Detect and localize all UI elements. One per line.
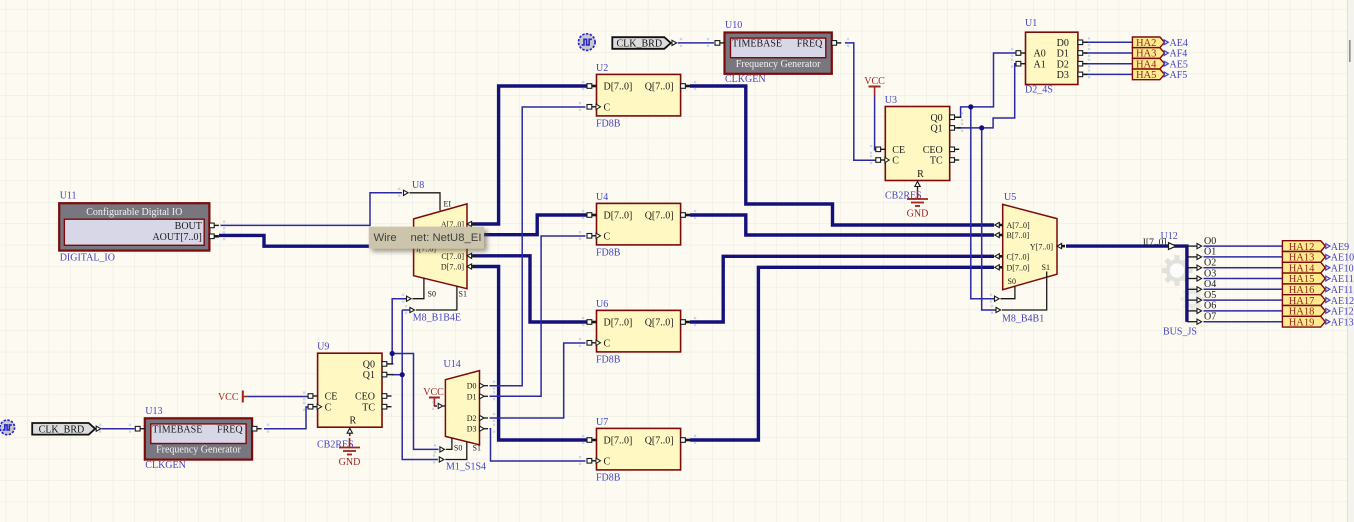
svg-text:D[7..0]: D[7..0] xyxy=(604,318,633,329)
wire net U9.Q1 to U8.S1 and U14.S1 xyxy=(392,310,438,460)
svg-text:CE: CE xyxy=(892,145,905,156)
svg-text:HA19: HA19 xyxy=(1289,317,1315,328)
svg-text:O3: O3 xyxy=(1204,268,1216,279)
svg-text:AE10: AE10 xyxy=(1331,253,1354,264)
svg-text:D2: D2 xyxy=(467,414,477,423)
svg-text:FD8B: FD8B xyxy=(596,473,621,484)
svg-text:A0: A0 xyxy=(1034,49,1046,60)
svg-text:D[7..0]: D[7..0] xyxy=(604,211,633,222)
svg-text:U2: U2 xyxy=(596,63,608,74)
svg-text:TC: TC xyxy=(930,156,943,167)
ground GND under U3 xyxy=(907,190,929,220)
svg-text:VCC: VCC xyxy=(864,76,885,87)
bus net AOUT[7..0]: U11.AOUT to U8 input xyxy=(219,235,414,246)
bus net from U2.Q to U5.A xyxy=(690,86,994,225)
scrollbar right edge xyxy=(1348,0,1354,522)
demultiplexer U14 (M1_S1S4) xyxy=(438,359,488,473)
svg-text:U6: U6 xyxy=(596,299,608,310)
configurable digital IO U11 (DIGITAL_IO) xyxy=(59,191,219,264)
register U4 (FD8B) xyxy=(587,192,690,259)
register U2 (FD8B) xyxy=(587,63,690,130)
svg-text:D[7..0]: D[7..0] xyxy=(604,436,633,447)
junction at U3.Q0 branch xyxy=(968,104,973,109)
svg-text:BUS_JS: BUS_JS xyxy=(1163,327,1197,338)
svg-text:O6: O6 xyxy=(1204,301,1216,312)
svg-text:O0: O0 xyxy=(1204,236,1216,247)
svg-text:U10: U10 xyxy=(725,20,742,31)
wire net U9.Q0 to U8.S0 and U14.S0 xyxy=(392,299,438,450)
svg-text:U13: U13 xyxy=(145,406,162,417)
svg-text:TIMEBASE: TIMEBASE xyxy=(152,424,202,435)
counter U9 (CB2RES) xyxy=(308,342,393,437)
bus net from U4.Q to U5.B xyxy=(690,215,994,235)
power VCC above U3 xyxy=(864,76,885,97)
register U7 (FD8B) xyxy=(587,417,690,484)
svg-text:AF13: AF13 xyxy=(1331,317,1354,328)
bus net from U8.B to U4.D xyxy=(473,215,588,235)
svg-text:S0: S0 xyxy=(1008,277,1016,286)
frequency generator U10 (CLKGEN) xyxy=(715,20,841,85)
port HA14 / net label AF10 xyxy=(1282,262,1353,274)
svg-text:Q0: Q0 xyxy=(363,360,375,371)
svg-text:CE: CE xyxy=(325,392,338,403)
svg-text:S1: S1 xyxy=(473,443,481,452)
svg-text:D3: D3 xyxy=(1057,70,1069,81)
svg-text:U8: U8 xyxy=(412,180,424,191)
svg-text:EI: EI xyxy=(444,200,452,209)
wire net U3.Q1 to U1.A1 and U5.S1 xyxy=(957,64,1016,310)
svg-text:S0: S0 xyxy=(428,289,436,298)
multiplexer U5 (M8_B4B1) xyxy=(995,192,1066,325)
svg-text:AE5: AE5 xyxy=(1170,59,1188,70)
decoder U1 (D2_4S) xyxy=(1016,18,1087,96)
svg-text:U9: U9 xyxy=(317,342,329,353)
svg-text:Q[7..0]: Q[7..0] xyxy=(645,82,674,93)
svg-text:Q1: Q1 xyxy=(930,124,942,135)
svg-text:U11: U11 xyxy=(60,191,77,202)
svg-text:CEO: CEO xyxy=(923,145,943,156)
svg-text:M8_B1B4E: M8_B1B4E xyxy=(413,313,461,324)
port HA3 / net label AF4 xyxy=(1132,48,1187,60)
svg-text:I[7..0]: I[7..0] xyxy=(1143,238,1167,248)
svg-text:O5: O5 xyxy=(1204,290,1216,301)
svg-text:FD8B: FD8B xyxy=(596,355,621,366)
svg-text:CLK_BRD: CLK_BRD xyxy=(39,425,85,436)
svg-text:O2: O2 xyxy=(1204,258,1216,269)
counter U3 (CB2RES) xyxy=(876,95,961,190)
label CB2RES for U3 xyxy=(885,191,922,202)
svg-text:U7: U7 xyxy=(596,417,608,428)
svg-text:FREQ: FREQ xyxy=(217,424,243,435)
svg-text:VCC: VCC xyxy=(423,387,444,398)
svg-text:O1: O1 xyxy=(1204,247,1216,258)
wire CLK_BRD (bottom) port to U13.TIMEBASE xyxy=(102,428,135,430)
power VCC left of U9 xyxy=(218,391,248,404)
svg-text:C: C xyxy=(604,456,611,467)
wire VCC to U9.CE xyxy=(248,396,309,398)
svg-text:Q[7..0]: Q[7..0] xyxy=(645,318,674,329)
port CLK_BRD (top) xyxy=(612,37,676,50)
port CLK_BRD (bottom) xyxy=(32,423,101,436)
svg-text:AOUT[7..0]: AOUT[7..0] xyxy=(152,232,201,243)
svg-text:C: C xyxy=(604,338,611,349)
svg-text:Frequency Generator: Frequency Generator xyxy=(736,59,821,70)
svg-text:DIGITAL_IO: DIGITAL_IO xyxy=(60,253,115,264)
svg-text:A[7..0]: A[7..0] xyxy=(1007,221,1030,230)
junction at U3.Q1 branch xyxy=(979,125,984,130)
svg-text:C[7..0]: C[7..0] xyxy=(1007,252,1030,261)
port HA17 / net label AE12 xyxy=(1282,295,1354,307)
svg-text:FREQ: FREQ xyxy=(797,39,823,50)
svg-text:AE9: AE9 xyxy=(1331,242,1349,253)
svg-text:U3: U3 xyxy=(885,95,897,106)
svg-text:AE4: AE4 xyxy=(1170,38,1188,49)
svg-text:O4: O4 xyxy=(1204,279,1216,290)
wire U14.D0 to U2.C xyxy=(490,107,586,386)
port HA13 / net label AE10 xyxy=(1282,252,1354,264)
label CB2RES for U9 xyxy=(317,439,354,450)
svg-text:Q1: Q1 xyxy=(363,370,375,381)
wire U14.D2 to U6.C xyxy=(490,343,586,418)
port HA2 / net label AE4 xyxy=(1132,37,1187,49)
svg-text:S1: S1 xyxy=(459,289,467,298)
svg-text:U4: U4 xyxy=(596,192,608,203)
svg-text:TC: TC xyxy=(362,402,375,413)
power VCC left of U14 xyxy=(423,387,444,406)
svg-text:C: C xyxy=(325,402,332,413)
bus net from U8.A to U2.D xyxy=(473,86,588,224)
svg-text:TIMEBASE: TIMEBASE xyxy=(732,39,782,50)
wire VCC to U3.CE xyxy=(875,97,876,150)
watermark gears xyxy=(1162,255,1205,311)
ground GND under U9 xyxy=(339,438,361,468)
wires U1.D0-D3 to ports HA2-HA5 xyxy=(1084,42,1132,74)
bus net from U8.C to U6.D xyxy=(473,256,588,322)
svg-text:O7: O7 xyxy=(1204,312,1216,323)
bus net from U6.Q to U5.C xyxy=(690,256,994,322)
tooltip Wire net NetU8_EI xyxy=(369,227,484,249)
svg-text:AF10: AF10 xyxy=(1331,263,1354,274)
svg-text:B[7..0]: B[7..0] xyxy=(1007,231,1030,240)
demultiplexer U8 (M8_B1B4E) xyxy=(404,180,476,324)
svg-text:AF12: AF12 xyxy=(1331,307,1354,318)
bus net from U7.Q to U5.D xyxy=(690,267,994,440)
svg-text:D3: D3 xyxy=(467,425,477,434)
svg-text:Q[7..0]: Q[7..0] xyxy=(645,436,674,447)
svg-text:Y[7..0]: Y[7..0] xyxy=(1030,242,1053,251)
svg-text:AE12: AE12 xyxy=(1331,296,1354,307)
svg-text:GND: GND xyxy=(339,457,361,468)
port HA16 / net label AF11 xyxy=(1282,284,1353,296)
wire U14.D1 to U4.C xyxy=(490,236,586,396)
svg-text:HA5: HA5 xyxy=(1136,70,1156,81)
svg-text:FD8B: FD8B xyxy=(596,248,621,259)
clock icon (top) xyxy=(579,34,596,51)
frequency generator U13 (CLKGEN) xyxy=(135,406,261,471)
svg-text:A1: A1 xyxy=(1034,59,1046,70)
wire U14.D3 to U7.C xyxy=(490,429,586,461)
svg-text:U14: U14 xyxy=(444,359,461,370)
port HA12 / net label AE9 xyxy=(1282,241,1349,253)
svg-text:AF5: AF5 xyxy=(1170,70,1188,81)
svg-text:D0: D0 xyxy=(467,382,477,391)
svg-text:U5: U5 xyxy=(1004,192,1016,203)
svg-text:GND: GND xyxy=(907,209,929,220)
svg-text:CEO: CEO xyxy=(355,392,375,403)
clock icon (bottom) xyxy=(0,420,15,435)
svg-text:R: R xyxy=(349,416,356,427)
port HA4 / net label AE5 xyxy=(1132,58,1187,70)
svg-text:CB2RES: CB2RES xyxy=(317,439,354,450)
hotspot markers (connection highlights) xyxy=(99,37,1090,465)
svg-text:D2_4S: D2_4S xyxy=(1025,84,1053,95)
svg-text:C: C xyxy=(892,156,899,167)
svg-text:AE11: AE11 xyxy=(1331,274,1354,285)
svg-text:D[7..0]: D[7..0] xyxy=(441,263,464,272)
svg-text:D1: D1 xyxy=(467,392,477,401)
svg-text:M1_S1S4: M1_S1S4 xyxy=(446,462,486,473)
wire U10.FREQ to U3.C xyxy=(845,43,876,160)
svg-text:D[7..0]: D[7..0] xyxy=(1007,263,1030,272)
port HA19 / net label AF13 xyxy=(1282,316,1353,328)
svg-text:C[7..0]: C[7..0] xyxy=(441,252,464,261)
wire net U3.Q0 to U1.A0 and U5.S0 xyxy=(957,53,1016,299)
wire net NetU8_EI: U11.BOUT to U8.EI xyxy=(221,193,403,226)
svg-text:Q0: Q0 xyxy=(930,113,942,124)
junction at U9.Q0 branch xyxy=(390,351,395,356)
wire VCC to U14 input xyxy=(434,405,437,407)
svg-text:FD8B: FD8B xyxy=(596,119,621,130)
svg-text:R: R xyxy=(917,169,924,180)
svg-text:net: NetU8_EI: net: NetU8_EI xyxy=(411,232,482,244)
wire CLK_BRD (top) port to U10.TIMEBASE xyxy=(678,42,714,44)
svg-text:Q[7..0]: Q[7..0] xyxy=(645,211,674,222)
svg-text:AF11: AF11 xyxy=(1331,285,1353,296)
svg-text:Frequency Generator: Frequency Generator xyxy=(156,445,241,456)
svg-text:D[7..0]: D[7..0] xyxy=(604,82,633,93)
svg-text:C: C xyxy=(604,102,611,113)
junction at U9.Q1 branch xyxy=(400,372,405,377)
svg-text:CLKGEN: CLKGEN xyxy=(725,74,766,85)
svg-text:AF4: AF4 xyxy=(1170,49,1188,60)
port HA15 / net label AE11 xyxy=(1282,273,1353,285)
svg-text:U1: U1 xyxy=(1025,18,1037,29)
svg-text:D1: D1 xyxy=(1057,49,1069,60)
svg-text:VCC: VCC xyxy=(218,392,239,403)
svg-text:Wire: Wire xyxy=(374,232,397,244)
svg-text:S1: S1 xyxy=(1042,263,1050,272)
register U6 (FD8B) xyxy=(587,299,690,366)
bus joiner U12 (BUS_JS) xyxy=(1143,231,1216,338)
wires U12.O0-O7 to ports HA12-HA19 xyxy=(1204,246,1283,322)
svg-text:BOUT: BOUT xyxy=(175,221,202,232)
bus net Y[7..0]/I[7..0]: U5.Y to U12 bus joiner xyxy=(1066,246,1187,322)
svg-text:C: C xyxy=(604,231,611,242)
svg-text:D0: D0 xyxy=(1057,38,1069,49)
bus net from U8.D to U7.D xyxy=(473,267,588,441)
port HA5 / net label AF5 xyxy=(1132,69,1187,81)
wire U13.FREQ to U9.C xyxy=(264,407,309,429)
svg-text:D2: D2 xyxy=(1057,59,1069,70)
svg-text:Configurable Digital IO: Configurable Digital IO xyxy=(86,207,182,218)
port HA18 / net label AF12 xyxy=(1282,306,1353,318)
svg-text:M8_B4B1: M8_B4B1 xyxy=(1002,314,1044,325)
svg-text:S0: S0 xyxy=(454,443,462,452)
svg-text:CLKGEN: CLKGEN xyxy=(145,460,186,471)
svg-text:CLK_BRD: CLK_BRD xyxy=(617,39,663,50)
